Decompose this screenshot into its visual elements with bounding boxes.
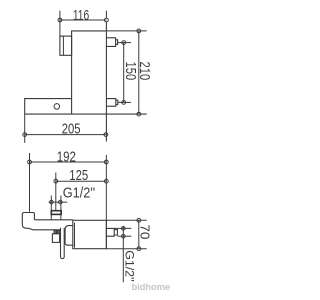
handshower nub right: [57, 230, 59, 233]
base plate hole: [54, 104, 60, 110]
dim 205 left circle: [23, 133, 27, 137]
stub1 left edge / extension: [50, 196, 52, 220]
dim 192 right circle: [104, 160, 108, 164]
svg-text:150: 150: [122, 62, 138, 81]
dim 70 line: [138, 220, 140, 248]
svg-text:192: 192: [57, 148, 76, 165]
dim 210 top extension (body top edge extended): [106, 30, 146, 32]
wall stub (bottom outlet): [106, 228, 114, 236]
svg-text:G1/2'': G1/2'': [63, 185, 96, 201]
dim 205 right circle: [104, 133, 108, 137]
dim 116 end circle right: [105, 18, 109, 22]
dim 150 top leader: [118, 42, 131, 44]
handshower outlet box: [52, 234, 59, 243]
top view left protrusion inner line: [62, 36, 64, 55]
dim 125 right circle: [104, 179, 108, 183]
top view body rectangle: [72, 31, 107, 114]
stub mini-dim upper leader: [114, 227, 131, 229]
dim 210 line: [138, 31, 140, 114]
dim 125 left circle: [54, 179, 58, 183]
handle cap (rounded): [65, 226, 73, 246]
top view body right edge and 205 extension: [105, 22, 107, 142]
svg-text:205: 205: [62, 121, 81, 138]
svg-text:116: 116: [73, 7, 89, 24]
dim 70 top circle: [137, 218, 141, 222]
dim 116 line: [60, 19, 107, 21]
base plate bottom edge and 210 bottom extension: [25, 113, 147, 115]
dim 70 top extension: [106, 219, 146, 221]
stub1 right edge / extension: [60, 196, 62, 220]
dim 192 line: [30, 161, 107, 163]
top view left protrusion: [60, 36, 72, 55]
dim 150 top circle: [122, 41, 126, 45]
right protrusion 1 nub: [116, 40, 118, 45]
dim 70 bottom extension: [106, 248, 146, 250]
stub mini-dim vertical line down to G1/2 label: [122, 226, 124, 282]
wall stub nub: [114, 230, 117, 235]
svg-text:70: 70: [138, 224, 152, 239]
dim 192 left circle: [28, 160, 32, 164]
right protrusion 2 nub: [116, 100, 118, 104]
top view right protrusion 1: [106, 38, 115, 47]
stub1 thread mini-dim line: [49, 201, 68, 203]
stub1 mini-dim left circle: [50, 200, 54, 204]
dim 210 top circle: [137, 29, 141, 33]
stub mini-dim lower leader: [117, 235, 131, 237]
stub1 thread box: [51, 211, 61, 215]
dim 192 left extension: [29, 153, 31, 212]
svg-text:210: 210: [136, 62, 152, 81]
dim 116 extension line right: [105, 11, 107, 18]
svg-text:125: 125: [69, 167, 88, 184]
dim 116 extension line left: [59, 11, 61, 36]
dim 210 bottom circle: [137, 112, 141, 116]
stub mini-dim lower circle: [122, 234, 126, 238]
dim 150 bottom leader: [118, 101, 131, 103]
dim 70 bottom circle: [137, 247, 141, 251]
dim 205 line: [25, 134, 106, 136]
dim 125 left extension (stub centerline): [55, 173, 57, 211]
spout outline: [22, 213, 73, 230]
stub1 mini-dim right circle: [59, 200, 63, 204]
stub mini-dim upper circle: [122, 227, 126, 231]
svg-text:bidhome: bidhome: [132, 282, 171, 293]
dim 192/70 right extension (wall line): [105, 155, 107, 248]
top view base plate: [25, 99, 72, 114]
dim 150 bottom circle: [122, 101, 126, 105]
body inner front line: [74, 223, 76, 248]
dim 116 end circle left: [58, 18, 62, 22]
handle rod: [61, 228, 65, 259]
dim 205 left extension: [24, 114, 26, 143]
top view right protrusion 2: [106, 99, 115, 107]
dim 150 line: [123, 43, 125, 103]
svg-text:G1/2'': G1/2'': [122, 250, 136, 282]
dim 125 line: [56, 180, 107, 182]
handshower nub left: [54, 230, 57, 233]
mixer body rectangle: [73, 220, 107, 248]
